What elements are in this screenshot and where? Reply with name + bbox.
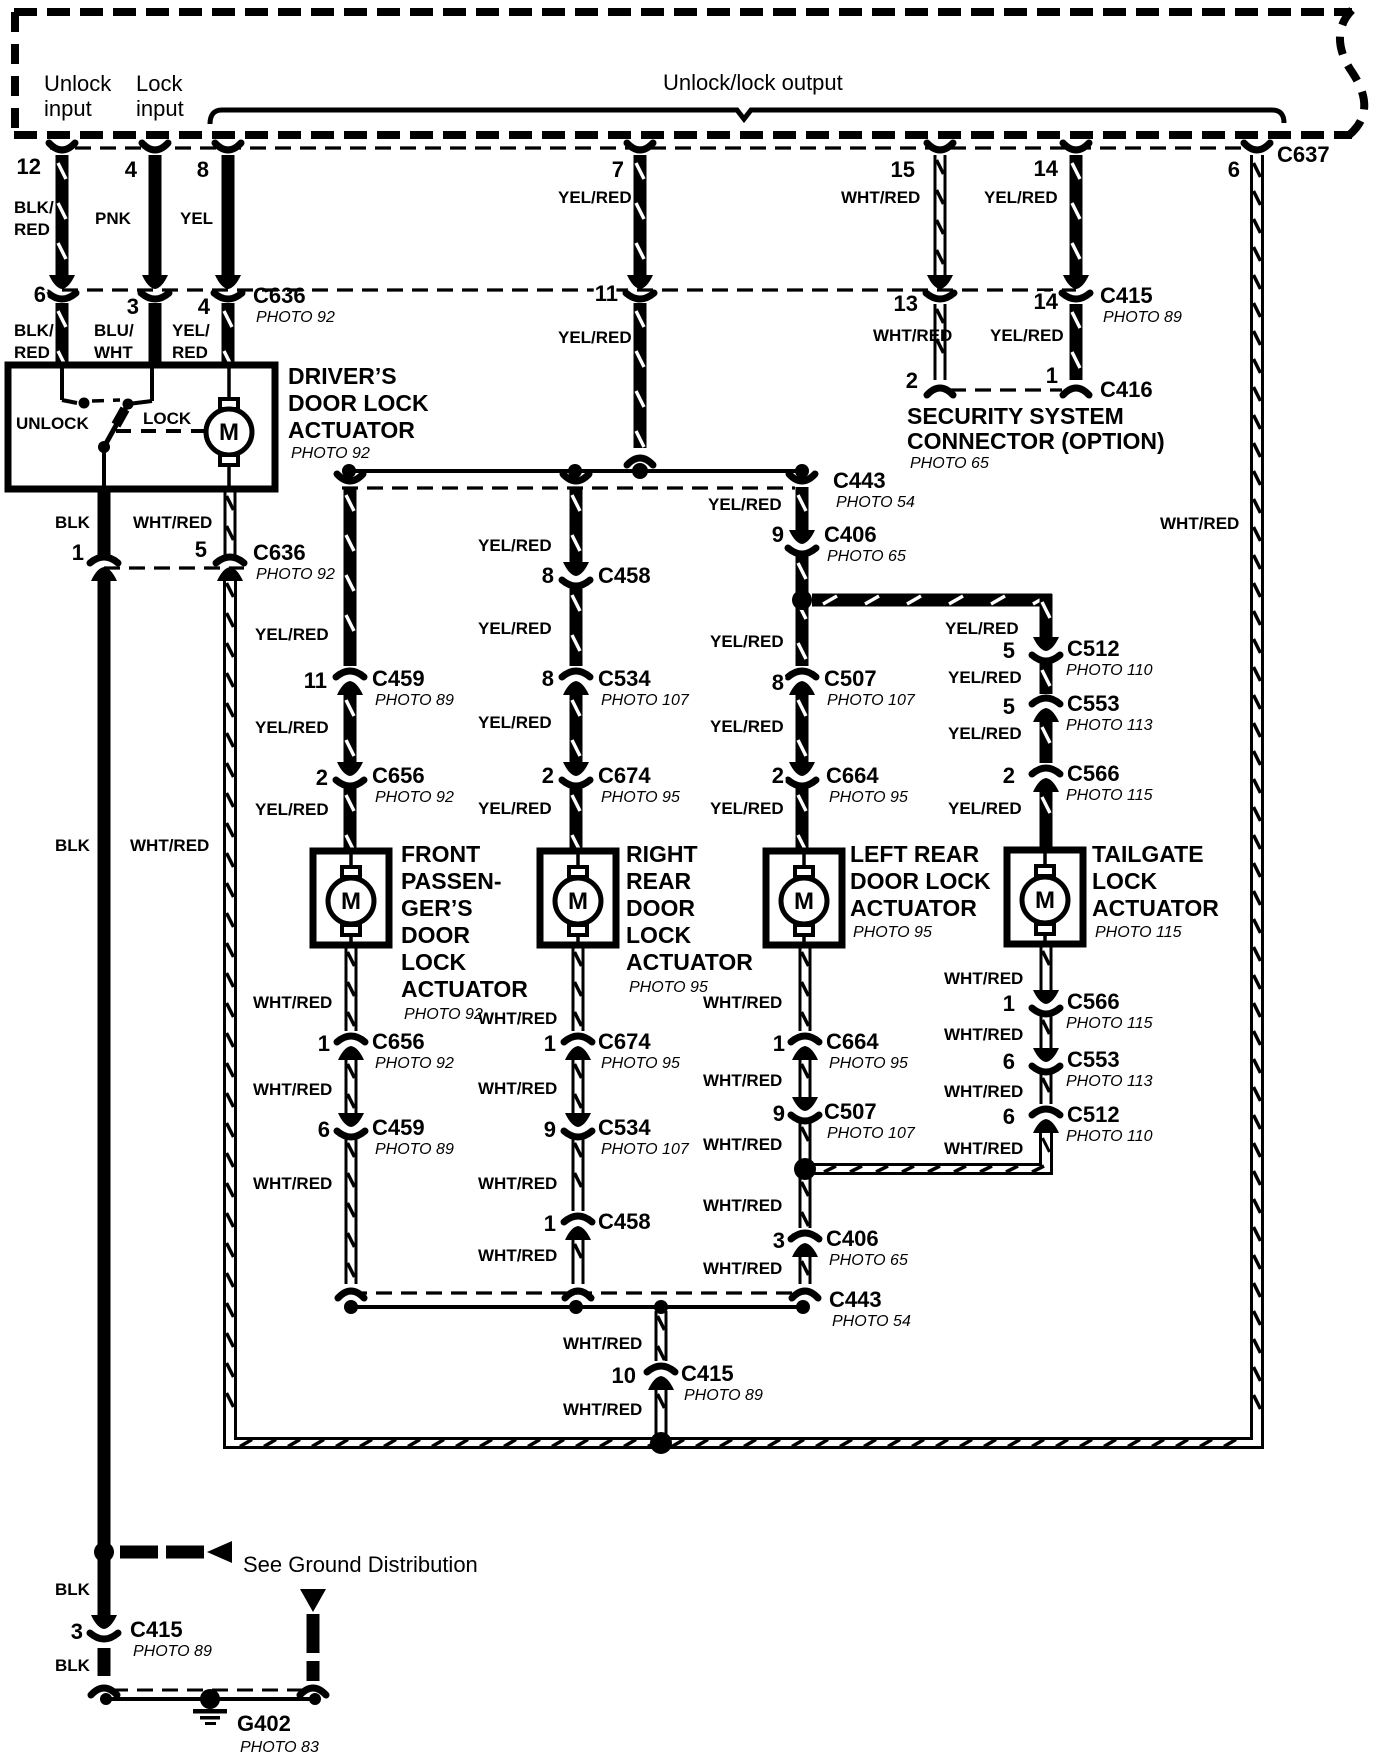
wire PNK pin4 bbox=[149, 155, 162, 277]
svg-text:PHOTO 113: PHOTO 113 bbox=[1066, 717, 1153, 734]
svg-text:C512: C512 bbox=[1067, 636, 1120, 661]
svg-text:YEL/RED: YEL/RED bbox=[948, 799, 1022, 818]
svg-text:PHOTO 92: PHOTO 92 bbox=[256, 566, 335, 583]
fork BLK onto ground line bbox=[91, 1688, 117, 1695]
svg-text:PHOTO 92: PHOTO 92 bbox=[404, 1006, 483, 1023]
wire label YEL/RED D4 bbox=[948, 799, 1022, 818]
wire label YEL/RED D2 bbox=[948, 668, 1022, 687]
pin label 10 bbox=[612, 1363, 636, 1388]
svg-text:WHT/RED: WHT/RED bbox=[478, 1246, 557, 1265]
connector C553 pin 5 bbox=[1032, 698, 1060, 722]
wire label WHT/RED B4 bbox=[478, 1246, 557, 1265]
svg-text:2: 2 bbox=[772, 763, 784, 788]
svg-text:PHOTO 92: PHOTO 92 bbox=[256, 309, 335, 326]
connector label C406 lower PHOTO 65 bbox=[826, 1226, 908, 1269]
label Unlock input bbox=[44, 71, 112, 121]
wire label YEL/RED B2 bbox=[478, 619, 552, 638]
wire WHT/RED col A upper bbox=[345, 947, 358, 1031]
svg-text:YEL/RED: YEL/RED bbox=[478, 799, 552, 818]
connector label C415 PHOTO 89 bbox=[1100, 283, 1182, 326]
dashed connector line C443 top bbox=[342, 486, 795, 489]
wire BLK junction to C415 bbox=[98, 1552, 111, 1617]
svg-text:M: M bbox=[794, 888, 814, 915]
svg-text:PHOTO 92: PHOTO 92 bbox=[375, 1055, 454, 1072]
svg-text:YEL/RED: YEL/RED bbox=[255, 718, 329, 737]
svg-text:SECURITY SYSTEM: SECURITY SYSTEM bbox=[907, 403, 1124, 429]
wire YEL/RED col D lower bbox=[1040, 789, 1053, 851]
wire label YEL/RED A3 bbox=[255, 800, 329, 819]
wire label WHT/RED pin10 lower bbox=[563, 1400, 642, 1419]
ground bus line bbox=[106, 1697, 315, 1701]
wire label PNK bbox=[95, 209, 132, 228]
junction dot C443 bus C bbox=[796, 1300, 810, 1314]
wire WHT/RED col B mid2 bbox=[572, 1138, 585, 1211]
connector C406 pin 9 bbox=[788, 530, 816, 554]
svg-text:BLK: BLK bbox=[55, 513, 91, 532]
svg-text:C406: C406 bbox=[826, 1226, 879, 1251]
pin label 1 C458 bbox=[544, 1211, 556, 1236]
wire YEL/RED col B mid2 bbox=[570, 692, 583, 763]
svg-text:GER’S: GER’S bbox=[401, 895, 473, 921]
svg-text:1: 1 bbox=[544, 1211, 556, 1236]
wire WHT/RED col C mid2 bbox=[799, 1122, 812, 1161]
wire WHT/RED return path left/bottom/right bbox=[225, 155, 1263, 1448]
dashed thick wire to See Ground Distribution bbox=[120, 1541, 232, 1563]
svg-text:WHT/RED: WHT/RED bbox=[841, 188, 920, 207]
svg-text:PHOTO 65: PHOTO 65 bbox=[827, 548, 906, 565]
svg-text:WHT/RED: WHT/RED bbox=[944, 1139, 1023, 1158]
connector label C534 lower PHOTO 107 bbox=[598, 1115, 690, 1158]
svg-text:WHT/RED: WHT/RED bbox=[253, 993, 332, 1012]
svg-text:CONNECTOR (OPTION): CONNECTOR (OPTION) bbox=[907, 428, 1165, 454]
svg-text:M: M bbox=[341, 888, 361, 915]
wire label WHT/RED B1 bbox=[478, 1009, 557, 1028]
svg-text:YEL/RED: YEL/RED bbox=[255, 800, 329, 819]
svg-text:PNK: PNK bbox=[95, 209, 132, 228]
svg-text:M: M bbox=[219, 419, 239, 446]
connector label C458 lower bbox=[598, 1209, 651, 1234]
wire label YEL/RED B1 bbox=[478, 536, 552, 555]
svg-text:input: input bbox=[44, 96, 92, 121]
wire label WHT/RED A1 bbox=[253, 993, 332, 1012]
pin label 13 bbox=[894, 291, 918, 316]
wire YEL/RED col D mid2 bbox=[1040, 719, 1053, 763]
dashed connector line ground bbox=[112, 1689, 305, 1692]
junction dot bus feed bbox=[632, 463, 648, 479]
fork YEL/RED onto bus bbox=[627, 458, 653, 465]
hatch marks bottom return bus bbox=[240, 1440, 1236, 1447]
svg-text:C674: C674 bbox=[598, 1029, 651, 1054]
svg-text:2: 2 bbox=[1003, 763, 1015, 788]
svg-text:RED: RED bbox=[14, 343, 50, 362]
svg-text:PHOTO 113: PHOTO 113 bbox=[1066, 1073, 1153, 1090]
connector C636 pin 4 bbox=[214, 275, 242, 299]
connector label C637 bbox=[1277, 142, 1330, 167]
YEL/RED distribution bus bbox=[349, 469, 802, 473]
svg-text:YEL/RED: YEL/RED bbox=[710, 799, 784, 818]
svg-text:6: 6 bbox=[1003, 1104, 1015, 1129]
svg-text:RED: RED bbox=[172, 343, 208, 362]
svg-text:YEL/RED: YEL/RED bbox=[478, 536, 552, 555]
svg-text:WHT/RED: WHT/RED bbox=[478, 1009, 557, 1028]
right rear door lock actuator (motor M) bbox=[540, 851, 616, 945]
svg-text:6: 6 bbox=[318, 1117, 330, 1142]
connector C459 pin 11 bbox=[336, 671, 364, 695]
connector label C566 PHOTO 115 bbox=[1066, 761, 1153, 804]
wire WHT/RED col B lower bbox=[572, 1239, 585, 1284]
wire label WHT/RED C4 bbox=[703, 1196, 782, 1215]
svg-text:8: 8 bbox=[542, 666, 554, 691]
junction dot bus left bbox=[342, 464, 356, 478]
connector C674 pin 1 bbox=[564, 1036, 592, 1060]
svg-text:10: 10 bbox=[612, 1363, 636, 1388]
connector label C566 lower PHOTO 115 bbox=[1066, 989, 1153, 1032]
label RIGHT REAR DOOR LOCK ACTUATOR bbox=[626, 841, 753, 996]
pin label 12 bbox=[17, 154, 41, 179]
wire YEL/RED pin14 upper bbox=[1070, 155, 1083, 277]
wire label WHT/RED pin15 bbox=[841, 188, 920, 207]
svg-text:13: 13 bbox=[894, 291, 918, 316]
connector C458 pin 8 bbox=[562, 562, 590, 586]
svg-text:WHT/RED: WHT/RED bbox=[703, 1071, 782, 1090]
svg-text:C512: C512 bbox=[1067, 1102, 1120, 1127]
connector C406 pin 3 bbox=[791, 1233, 819, 1257]
svg-text:BLK/: BLK/ bbox=[14, 198, 54, 217]
switch lever UNLOCK/LOCK bbox=[98, 404, 128, 489]
pin 4 fork bbox=[142, 143, 168, 150]
connector C656 pin 1 bbox=[337, 1036, 365, 1060]
svg-text:3: 3 bbox=[71, 1619, 83, 1644]
svg-text:14: 14 bbox=[1034, 156, 1059, 181]
svg-text:PHOTO 83: PHOTO 83 bbox=[240, 1739, 319, 1756]
connector label C664 lower PHOTO 95 bbox=[826, 1029, 908, 1072]
wire YEL/RED pin7 upper bbox=[634, 155, 647, 277]
svg-text:C416: C416 bbox=[1100, 377, 1153, 402]
svg-text:15: 15 bbox=[891, 157, 915, 182]
svg-text:PHOTO 89: PHOTO 89 bbox=[375, 1141, 454, 1158]
junction dot ground branch bbox=[94, 1542, 114, 1562]
svg-text:WHT: WHT bbox=[94, 343, 133, 362]
svg-text:2: 2 bbox=[316, 765, 328, 790]
svg-text:C664: C664 bbox=[826, 763, 879, 788]
pin label 9 C534 bbox=[544, 1117, 556, 1142]
svg-text:C656: C656 bbox=[372, 1029, 425, 1054]
wire label WHT/RED D2 bbox=[944, 1025, 1023, 1044]
wire WHT/RED pin15 upper bbox=[934, 155, 947, 276]
connector C534 pin 8 bbox=[562, 671, 590, 695]
svg-text:C459: C459 bbox=[372, 666, 425, 691]
svg-text:C458: C458 bbox=[598, 1209, 651, 1234]
wire label YEL/RED B4 bbox=[478, 799, 552, 818]
pin label 6 C512 bbox=[1003, 1104, 1015, 1129]
svg-text:PHOTO 110: PHOTO 110 bbox=[1066, 1128, 1153, 1145]
svg-text:M: M bbox=[568, 888, 588, 915]
connector C507 pin 8 bbox=[788, 671, 816, 695]
wire YEL/RED col A mid bbox=[344, 692, 357, 763]
wire label WHT/RED A2 bbox=[253, 1080, 332, 1099]
wire YEL/RED col C mid1 bbox=[796, 555, 809, 666]
svg-text:RED: RED bbox=[14, 220, 50, 239]
connector label C674 PHOTO 95 bbox=[598, 763, 680, 806]
svg-text:3: 3 bbox=[773, 1228, 785, 1253]
wire label YEL bbox=[180, 209, 213, 228]
pin 7 fork bbox=[627, 143, 653, 150]
svg-text:7: 7 bbox=[612, 157, 624, 182]
svg-text:LOCK: LOCK bbox=[401, 949, 467, 975]
connector C415 pin 13 bbox=[926, 275, 954, 299]
svg-text:ACTUATOR: ACTUATOR bbox=[1092, 895, 1219, 921]
connector C512 pin 5 bbox=[1032, 637, 1060, 661]
svg-text:PASSEN-: PASSEN- bbox=[401, 868, 502, 894]
svg-text:WHT/RED: WHT/RED bbox=[130, 836, 209, 855]
svg-text:WHT/RED: WHT/RED bbox=[944, 969, 1023, 988]
connector C458 pin 1 bbox=[564, 1216, 592, 1240]
pin label 6 C459 bbox=[318, 1117, 330, 1142]
connector C443 col B bottom bbox=[565, 1291, 591, 1298]
wire YEL/RED col C mid2 bbox=[796, 692, 809, 763]
wire WHT/RED col C mid3 bbox=[799, 1177, 812, 1228]
svg-text:C507: C507 bbox=[824, 666, 877, 691]
svg-text:WHT/RED: WHT/RED bbox=[703, 993, 782, 1012]
svg-text:6: 6 bbox=[1228, 157, 1240, 182]
pin 6 fork bbox=[1244, 143, 1270, 150]
svg-text:C637: C637 bbox=[1277, 142, 1330, 167]
pin label 5 C512 bbox=[1003, 638, 1015, 663]
pin label 3 C406 bbox=[773, 1228, 785, 1253]
svg-text:ACTUATOR: ACTUATOR bbox=[288, 417, 415, 443]
wire label YEL/RED D1 bbox=[945, 619, 1019, 638]
pin 15 fork bbox=[927, 143, 953, 150]
dashed connector line C636/C415 bbox=[62, 288, 1076, 291]
pin label 11 C459 bbox=[304, 668, 327, 693]
svg-text:C566: C566 bbox=[1067, 989, 1120, 1014]
svg-text:PHOTO 95: PHOTO 95 bbox=[601, 789, 680, 806]
wire label WHT/RED D1 bbox=[944, 969, 1023, 988]
svg-text:1: 1 bbox=[1003, 991, 1015, 1016]
connector C443 col B bbox=[563, 474, 589, 481]
svg-text:1: 1 bbox=[318, 1031, 330, 1056]
svg-text:2: 2 bbox=[906, 368, 918, 393]
svg-text:BLK: BLK bbox=[55, 1656, 91, 1675]
connector C416 pin 2 bbox=[927, 388, 953, 395]
dashed connector line C636 lower bbox=[104, 566, 244, 569]
svg-text:PHOTO 92: PHOTO 92 bbox=[375, 789, 454, 806]
svg-text:UNLOCK: UNLOCK bbox=[16, 414, 89, 433]
wire label WHT/RED pin10 upper bbox=[563, 1334, 642, 1353]
svg-text:8: 8 bbox=[197, 157, 209, 182]
svg-text:1: 1 bbox=[773, 1031, 785, 1056]
connector C636 pin 6 bbox=[48, 275, 76, 299]
svg-text:WHT/RED: WHT/RED bbox=[478, 1174, 557, 1193]
label Lock input bbox=[136, 71, 184, 121]
wire label YEL/RED A1 bbox=[255, 625, 329, 644]
junction dot bus right bbox=[795, 464, 809, 478]
svg-text:PHOTO 95: PHOTO 95 bbox=[629, 979, 708, 996]
svg-text:11: 11 bbox=[304, 668, 327, 693]
pin label 2 C656 bbox=[316, 765, 328, 790]
svg-text:C507: C507 bbox=[824, 1099, 877, 1124]
svg-text:C415: C415 bbox=[1100, 283, 1153, 308]
svg-text:12: 12 bbox=[17, 154, 41, 179]
svg-text:YEL/: YEL/ bbox=[172, 321, 210, 340]
wire label BLK/RED lower bbox=[14, 321, 54, 362]
svg-text:PHOTO 65: PHOTO 65 bbox=[829, 1252, 908, 1269]
svg-text:DRIVER’S: DRIVER’S bbox=[288, 363, 397, 389]
pin label 9 C406 bbox=[772, 522, 784, 547]
hatch marks tailgate return bbox=[824, 1138, 1050, 1172]
svg-text:6: 6 bbox=[1003, 1049, 1015, 1074]
wire label BLK bottom2 bbox=[55, 1656, 91, 1675]
wire label YEL/RED B3 bbox=[478, 713, 552, 732]
connector label C459 PHOTO 89 bbox=[372, 666, 454, 709]
wire YEL/RED col B lower bbox=[570, 787, 583, 852]
driver's door lock actuator box bbox=[8, 365, 275, 489]
connector label C534 PHOTO 107 bbox=[598, 666, 690, 709]
svg-text:C553: C553 bbox=[1067, 691, 1120, 716]
svg-text:WHT/RED: WHT/RED bbox=[133, 513, 212, 532]
svg-text:BLK: BLK bbox=[55, 836, 91, 855]
svg-text:C664: C664 bbox=[826, 1029, 879, 1054]
svg-text:TAILGATE: TAILGATE bbox=[1092, 841, 1204, 867]
pin label 8 C507 bbox=[772, 670, 784, 695]
pin label 1 C636 bbox=[72, 540, 84, 565]
pin label 6 C553 bbox=[1003, 1049, 1015, 1074]
connector label C415 bottom PHOTO 89 bbox=[130, 1617, 212, 1660]
label TAILGATE LOCK ACTUATOR bbox=[1092, 841, 1219, 941]
connector C566 pin 1 bbox=[1032, 990, 1060, 1014]
pin label 14 bbox=[1034, 156, 1059, 181]
svg-text:PHOTO 54: PHOTO 54 bbox=[832, 1313, 911, 1330]
svg-text:5: 5 bbox=[1003, 638, 1015, 663]
wire WHT/RED col C lower bbox=[799, 1256, 812, 1284]
svg-text:YEL/RED: YEL/RED bbox=[255, 625, 329, 644]
svg-text:PHOTO 95: PHOTO 95 bbox=[853, 924, 932, 941]
svg-text:6: 6 bbox=[34, 282, 46, 307]
label LOCK bbox=[143, 409, 192, 428]
wire label YEL/RED C1 bbox=[708, 495, 782, 514]
junction dot YEL/RED branch bbox=[792, 590, 812, 610]
svg-text:1: 1 bbox=[1046, 363, 1058, 388]
svg-text:C443: C443 bbox=[829, 1287, 882, 1312]
dashed link to motor bbox=[116, 429, 206, 433]
pin 14 fork bbox=[1063, 143, 1089, 150]
svg-text:PHOTO 107: PHOTO 107 bbox=[601, 1141, 690, 1158]
connector C507 pin 9 bbox=[791, 1097, 819, 1121]
connector label C674 lower PHOTO 95 bbox=[598, 1029, 680, 1072]
connector label C656 PHOTO 92 bbox=[372, 763, 454, 806]
wire label WHT/RED C5 bbox=[703, 1259, 782, 1278]
wire label WHT/RED C2 bbox=[703, 1071, 782, 1090]
svg-text:9: 9 bbox=[772, 522, 784, 547]
svg-text:Unlock/lock output: Unlock/lock output bbox=[663, 70, 843, 95]
pin label 6 bbox=[1228, 157, 1240, 182]
wire YEL/RED pin7 lower bbox=[634, 303, 647, 448]
wire label YEL/RED lower bbox=[172, 321, 210, 362]
connector C415 pin 14 bbox=[1062, 275, 1090, 299]
svg-text:4: 4 bbox=[198, 294, 211, 319]
wire YEL/RED into driver actuator bbox=[222, 303, 235, 368]
wire WHT/RED col C upper bbox=[799, 947, 812, 1031]
pin label 8 C458 bbox=[542, 563, 554, 588]
wire label BLU/WHT bbox=[94, 321, 134, 362]
connector C415 pin 10 bbox=[647, 1366, 675, 1390]
connector label C507 PHOTO 107 bbox=[824, 666, 916, 709]
wire WHT/RED to C415 pin 10 bbox=[655, 1311, 668, 1361]
connector label C415 pin10 PHOTO 89 bbox=[681, 1361, 763, 1404]
dot ground line right bbox=[309, 1693, 321, 1705]
wire YEL/RED branch to tailgate bbox=[812, 594, 1052, 607]
svg-text:1: 1 bbox=[72, 540, 84, 565]
wire YEL/RED col A lower bbox=[344, 787, 357, 852]
wire YEL/RED col B mid1 bbox=[570, 587, 583, 666]
connector C553 pin 6 bbox=[1032, 1048, 1060, 1072]
junction dot C443 bus tap bbox=[654, 1300, 668, 1314]
wire label BLK bottom1 bbox=[55, 1580, 91, 1599]
svg-text:WHT/RED: WHT/RED bbox=[703, 1196, 782, 1215]
junction dot return bus bbox=[650, 1432, 672, 1454]
wire label WHT/RED C1 bbox=[703, 993, 782, 1012]
wire label WHT/RED right bbox=[1160, 514, 1239, 533]
connector C566 pin 2 bbox=[1032, 768, 1060, 792]
wire WHT/RED col D mid2 bbox=[1040, 1073, 1053, 1104]
pin label 2 C664 bbox=[772, 763, 784, 788]
pin label 2 C674 bbox=[542, 763, 554, 788]
label Unlock/lock output with brace bbox=[210, 70, 1284, 124]
connector label C553 lower PHOTO 113 bbox=[1066, 1047, 1153, 1090]
svg-text:REAR: REAR bbox=[626, 868, 692, 894]
pin label 3 C636 bbox=[127, 294, 139, 319]
pin label 2 C566 bbox=[1003, 763, 1015, 788]
svg-text:YEL/RED: YEL/RED bbox=[558, 328, 632, 347]
motor M driver actuator bbox=[206, 368, 252, 489]
svg-text:DOOR: DOOR bbox=[401, 922, 470, 948]
svg-text:PHOTO 54: PHOTO 54 bbox=[836, 494, 915, 511]
svg-text:3: 3 bbox=[127, 294, 139, 319]
svg-text:YEL/RED: YEL/RED bbox=[984, 188, 1058, 207]
connector label C507 lower PHOTO 107 bbox=[824, 1099, 916, 1142]
wire label WHT/RED B2 bbox=[478, 1079, 557, 1098]
svg-text:PHOTO 89: PHOTO 89 bbox=[684, 1387, 763, 1404]
svg-text:WHT/RED: WHT/RED bbox=[703, 1135, 782, 1154]
svg-text:PHOTO 107: PHOTO 107 bbox=[827, 692, 916, 709]
svg-text:LOCK: LOCK bbox=[143, 409, 192, 428]
svg-text:WHT/RED: WHT/RED bbox=[944, 1082, 1023, 1101]
wire WHT/RED col C mid1 bbox=[799, 1059, 812, 1098]
pin 12 fork bbox=[49, 143, 75, 150]
svg-text:2: 2 bbox=[542, 763, 554, 788]
control module dashed outline (top) bbox=[14, 10, 1364, 136]
svg-text:ACTUATOR: ACTUATOR bbox=[401, 976, 528, 1002]
svg-text:C636: C636 bbox=[253, 540, 306, 565]
svg-text:4: 4 bbox=[125, 157, 138, 182]
svg-text:PHOTO 89: PHOTO 89 bbox=[1103, 309, 1182, 326]
svg-text:11: 11 bbox=[595, 281, 618, 306]
pin label 1 C566 bbox=[1003, 991, 1015, 1016]
pin label 3 C415 bbox=[71, 1619, 83, 1644]
svg-text:YEL/RED: YEL/RED bbox=[945, 619, 1019, 638]
label DRIVER'S DOOR LOCK ACTUATOR bbox=[288, 363, 429, 462]
junction dot tailgate return bbox=[794, 1158, 816, 1180]
svg-text:5: 5 bbox=[1003, 694, 1015, 719]
connector label C553 PHOTO 113 bbox=[1066, 691, 1153, 734]
wire label WHT/RED below driver bbox=[133, 513, 212, 532]
wire label WHT/RED C3 bbox=[703, 1135, 782, 1154]
pin label 5 C636 bbox=[195, 537, 207, 562]
wire WHT/RED col B mid bbox=[572, 1059, 585, 1114]
pin label 1 C656 bbox=[318, 1031, 330, 1056]
ground symbol G402 bbox=[193, 1689, 227, 1725]
connector C636 pin 3 bbox=[141, 275, 169, 299]
